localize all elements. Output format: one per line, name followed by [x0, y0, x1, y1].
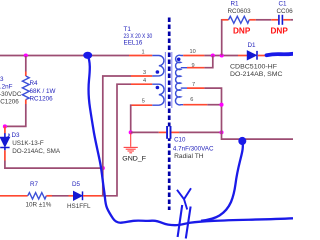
polarity dot secondary: [177, 58, 181, 62]
winding primary 4-5: [152, 84, 164, 105]
svg-text:6: 6: [190, 97, 193, 103]
pin D3 bottom: [4, 150, 6, 160]
node junction R1 branch: [220, 53, 224, 57]
wire C1 to edge: [290, 19, 293, 21]
polarity dot winding 4-5: [156, 86, 160, 90]
svg-text:D1: D1: [248, 42, 257, 49]
diode D5: [74, 191, 83, 200]
svg-text:D5: D5: [72, 181, 81, 188]
svg-text:2.2nF: 2.2nF: [0, 84, 13, 91]
pin C10 left: [159, 131, 167, 133]
svg-text:DO-214AB, SMC: DO-214AB, SMC: [230, 71, 283, 78]
svg-text:R4: R4: [30, 80, 39, 87]
winding secondary 10-6: [175, 55, 183, 105]
core line left: [164, 52, 166, 108]
isolation barrier dashed line: [168, 18, 171, 211]
svg-text:C3: C3: [0, 76, 4, 83]
diode D1: [247, 51, 257, 60]
pin D1 left: [238, 55, 247, 57]
pin T1-10 stub: [183, 55, 204, 57]
svg-text:EEL16: EEL16: [124, 40, 143, 47]
svg-text:68K / 1W: 68K / 1W: [30, 88, 56, 95]
resistor R1: [229, 16, 250, 23]
pin D1 right: [258, 55, 268, 57]
annotation Y mark: [177, 188, 191, 209]
capacitor C10: [167, 126, 170, 139]
winding primary 1-3: [152, 55, 164, 76]
resistor R7: [28, 193, 47, 199]
pin C1 right: [283, 19, 290, 21]
svg-text:CC1206: CC1206: [0, 99, 19, 106]
wire R4 to D3: [5, 104, 26, 126]
node junction pin6: [219, 103, 223, 107]
svg-text:US1K-13-F: US1K-13-F: [12, 140, 44, 147]
wire hand-drawn blue D1 to edge: [267, 54, 294, 55]
svg-text:Radial TH: Radial TH: [174, 153, 204, 160]
node blue blob top rail: [83, 52, 92, 59]
pin T1-6 stub: [183, 104, 207, 106]
label C3 (clipped at left edge): [0, 76, 22, 106]
wire R7 rail left: [0, 195, 28, 197]
annotation slash 2: [186, 207, 191, 239]
pin R4 bottom: [25, 100, 27, 105]
svg-text:C10: C10: [174, 136, 186, 143]
pin T1-9 stub: [187, 67, 204, 69]
svg-text:C1: C1: [279, 1, 288, 8]
wire pin10 rail: [204, 55, 238, 57]
svg-text:RC0603: RC0603: [228, 8, 252, 15]
wire hand-drawn blue right vertical: [201, 141, 243, 221]
pin C10 right: [171, 131, 179, 133]
svg-text:10R ±1%: 10R ±1%: [26, 202, 52, 209]
pin C1 left: [271, 19, 278, 21]
pin R1 left: [222, 19, 229, 21]
svg-text:R7: R7: [30, 181, 39, 188]
wire top rail: [0, 55, 129, 57]
wire R1 branch riser: [221, 20, 223, 56]
svg-text:HS1FFL: HS1FFL: [67, 203, 91, 210]
diode D3: [0, 133, 9, 150]
svg-text:1: 1: [142, 50, 145, 56]
wire R1 to C1: [256, 19, 271, 21]
wire R4 upper: [25, 56, 27, 72]
svg-text:CDBC5100-HF: CDBC5100-HF: [230, 64, 277, 71]
svg-text:R1: R1: [231, 1, 240, 8]
wire C10 net left: [131, 131, 159, 133]
wire R7 to D5: [52, 195, 69, 197]
wire pin5 net: [132, 104, 153, 106]
wire pin4 net: [131, 83, 152, 85]
svg-text:RC1206: RC1206: [30, 96, 54, 103]
pin D3 top: [4, 126, 6, 133]
pin D5 right: [83, 195, 102, 197]
tap pin 7 blue: [181, 87, 187, 89]
ground GND_F: [124, 133, 138, 153]
core line right: [171, 52, 173, 108]
wire D3 to pin3 net: [5, 161, 103, 169]
node blue blob secondary: [238, 137, 246, 145]
pin R4 top: [25, 72, 27, 77]
node junction pin9 riser: [211, 53, 215, 57]
node junction pin3 vertical / D3 wire: [101, 166, 105, 170]
pin D5 left: [69, 195, 74, 197]
svg-text:10: 10: [190, 49, 196, 55]
wire pin6 to vertical: [207, 104, 221, 106]
pin T1-7 stub: [187, 87, 204, 89]
wire D5 to vertical: [102, 195, 104, 197]
wire pin7 down: [204, 88, 293, 139]
node junction top rail / R4: [24, 53, 28, 57]
pin R7 right: [46, 195, 52, 197]
capacitor C1: [279, 15, 283, 25]
svg-text:DNP: DNP: [233, 27, 251, 36]
polarity dot winding 1-3: [156, 70, 160, 74]
svg-text:4: 4: [143, 78, 146, 84]
node junction C10 / secondary vertical: [219, 130, 223, 134]
svg-text:3: 3: [143, 70, 146, 76]
resistor R4: [22, 76, 29, 100]
wire pin3 net: [131, 75, 152, 77]
svg-text:5: 5: [142, 99, 145, 105]
transformer T1: [152, 52, 187, 108]
svg-text:DO-214AC, SMA: DO-214AC, SMA: [12, 148, 61, 155]
pin T1-1 stub: [129, 55, 152, 57]
svg-text:DNP: DNP: [271, 27, 289, 36]
svg-text:4.7nF/300VAC: 4.7nF/300VAC: [173, 145, 214, 152]
node junction GND: [129, 130, 133, 134]
svg-text:-30VDC: -30VDC: [0, 91, 22, 98]
wire pin9 riser: [204, 56, 212, 68]
annotation slash 1: [178, 205, 183, 237]
node junction D3 top: [3, 124, 7, 128]
svg-text:CC0603: CC0603: [277, 8, 294, 15]
svg-text:D3: D3: [12, 132, 21, 139]
tap pin 9 blue: [181, 67, 187, 69]
svg-text:GND_F: GND_F: [122, 156, 146, 163]
pin R1 right: [249, 19, 256, 21]
wire C10 net right: [179, 131, 221, 133]
wire hand-drawn blue left vertical: [88, 55, 293, 225]
capacitor C10 plates over barrier: [167, 126, 170, 139]
